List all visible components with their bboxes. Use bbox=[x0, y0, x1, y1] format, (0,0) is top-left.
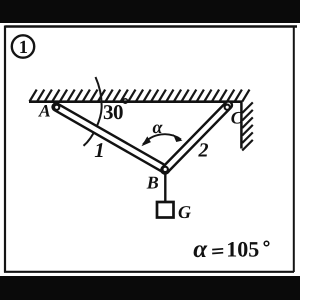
wall line bbox=[240, 101, 243, 149]
pin joint C bbox=[225, 105, 230, 110]
svg-text:α: α bbox=[193, 236, 208, 263]
pin joint B bbox=[163, 167, 168, 172]
rod 2 (B to C) bbox=[165, 105, 229, 170]
string from B to weight bbox=[164, 172, 166, 203]
30 degree angle arc at A bbox=[84, 77, 102, 146]
degree mark for 30 bbox=[123, 99, 127, 103]
problem number badge circle bbox=[12, 35, 34, 57]
top black band bbox=[0, 0, 300, 23]
equation equals sign bbox=[212, 249, 223, 254]
svg-text:G: G bbox=[178, 202, 191, 222]
svg-text:α: α bbox=[153, 117, 164, 137]
svg-text:30: 30 bbox=[103, 100, 123, 124]
pin joint A bbox=[54, 105, 59, 110]
alpha angle arc at B bbox=[143, 134, 181, 144]
svg-text:2: 2 bbox=[198, 140, 209, 162]
degree mark for 105 bbox=[264, 241, 269, 246]
svg-text:A: A bbox=[38, 101, 51, 121]
ceiling hatching bbox=[30, 90, 250, 102]
svg-text:105: 105 bbox=[226, 237, 259, 262]
svg-text:B: B bbox=[146, 173, 159, 193]
rod 1 (A to B) bbox=[56, 107, 165, 170]
wall hatching bbox=[242, 102, 253, 150]
bottom black band bbox=[0, 276, 300, 300]
svg-text:1: 1 bbox=[19, 38, 28, 58]
weight G box bbox=[157, 202, 174, 218]
alpha arc right arrowhead bbox=[174, 135, 182, 141]
svg-text:C: C bbox=[231, 108, 243, 128]
alpha arc left arrowhead bbox=[142, 137, 150, 145]
ceiling line bbox=[29, 100, 243, 103]
svg-text:1: 1 bbox=[94, 138, 105, 162]
page frame border bbox=[4, 26, 297, 273]
